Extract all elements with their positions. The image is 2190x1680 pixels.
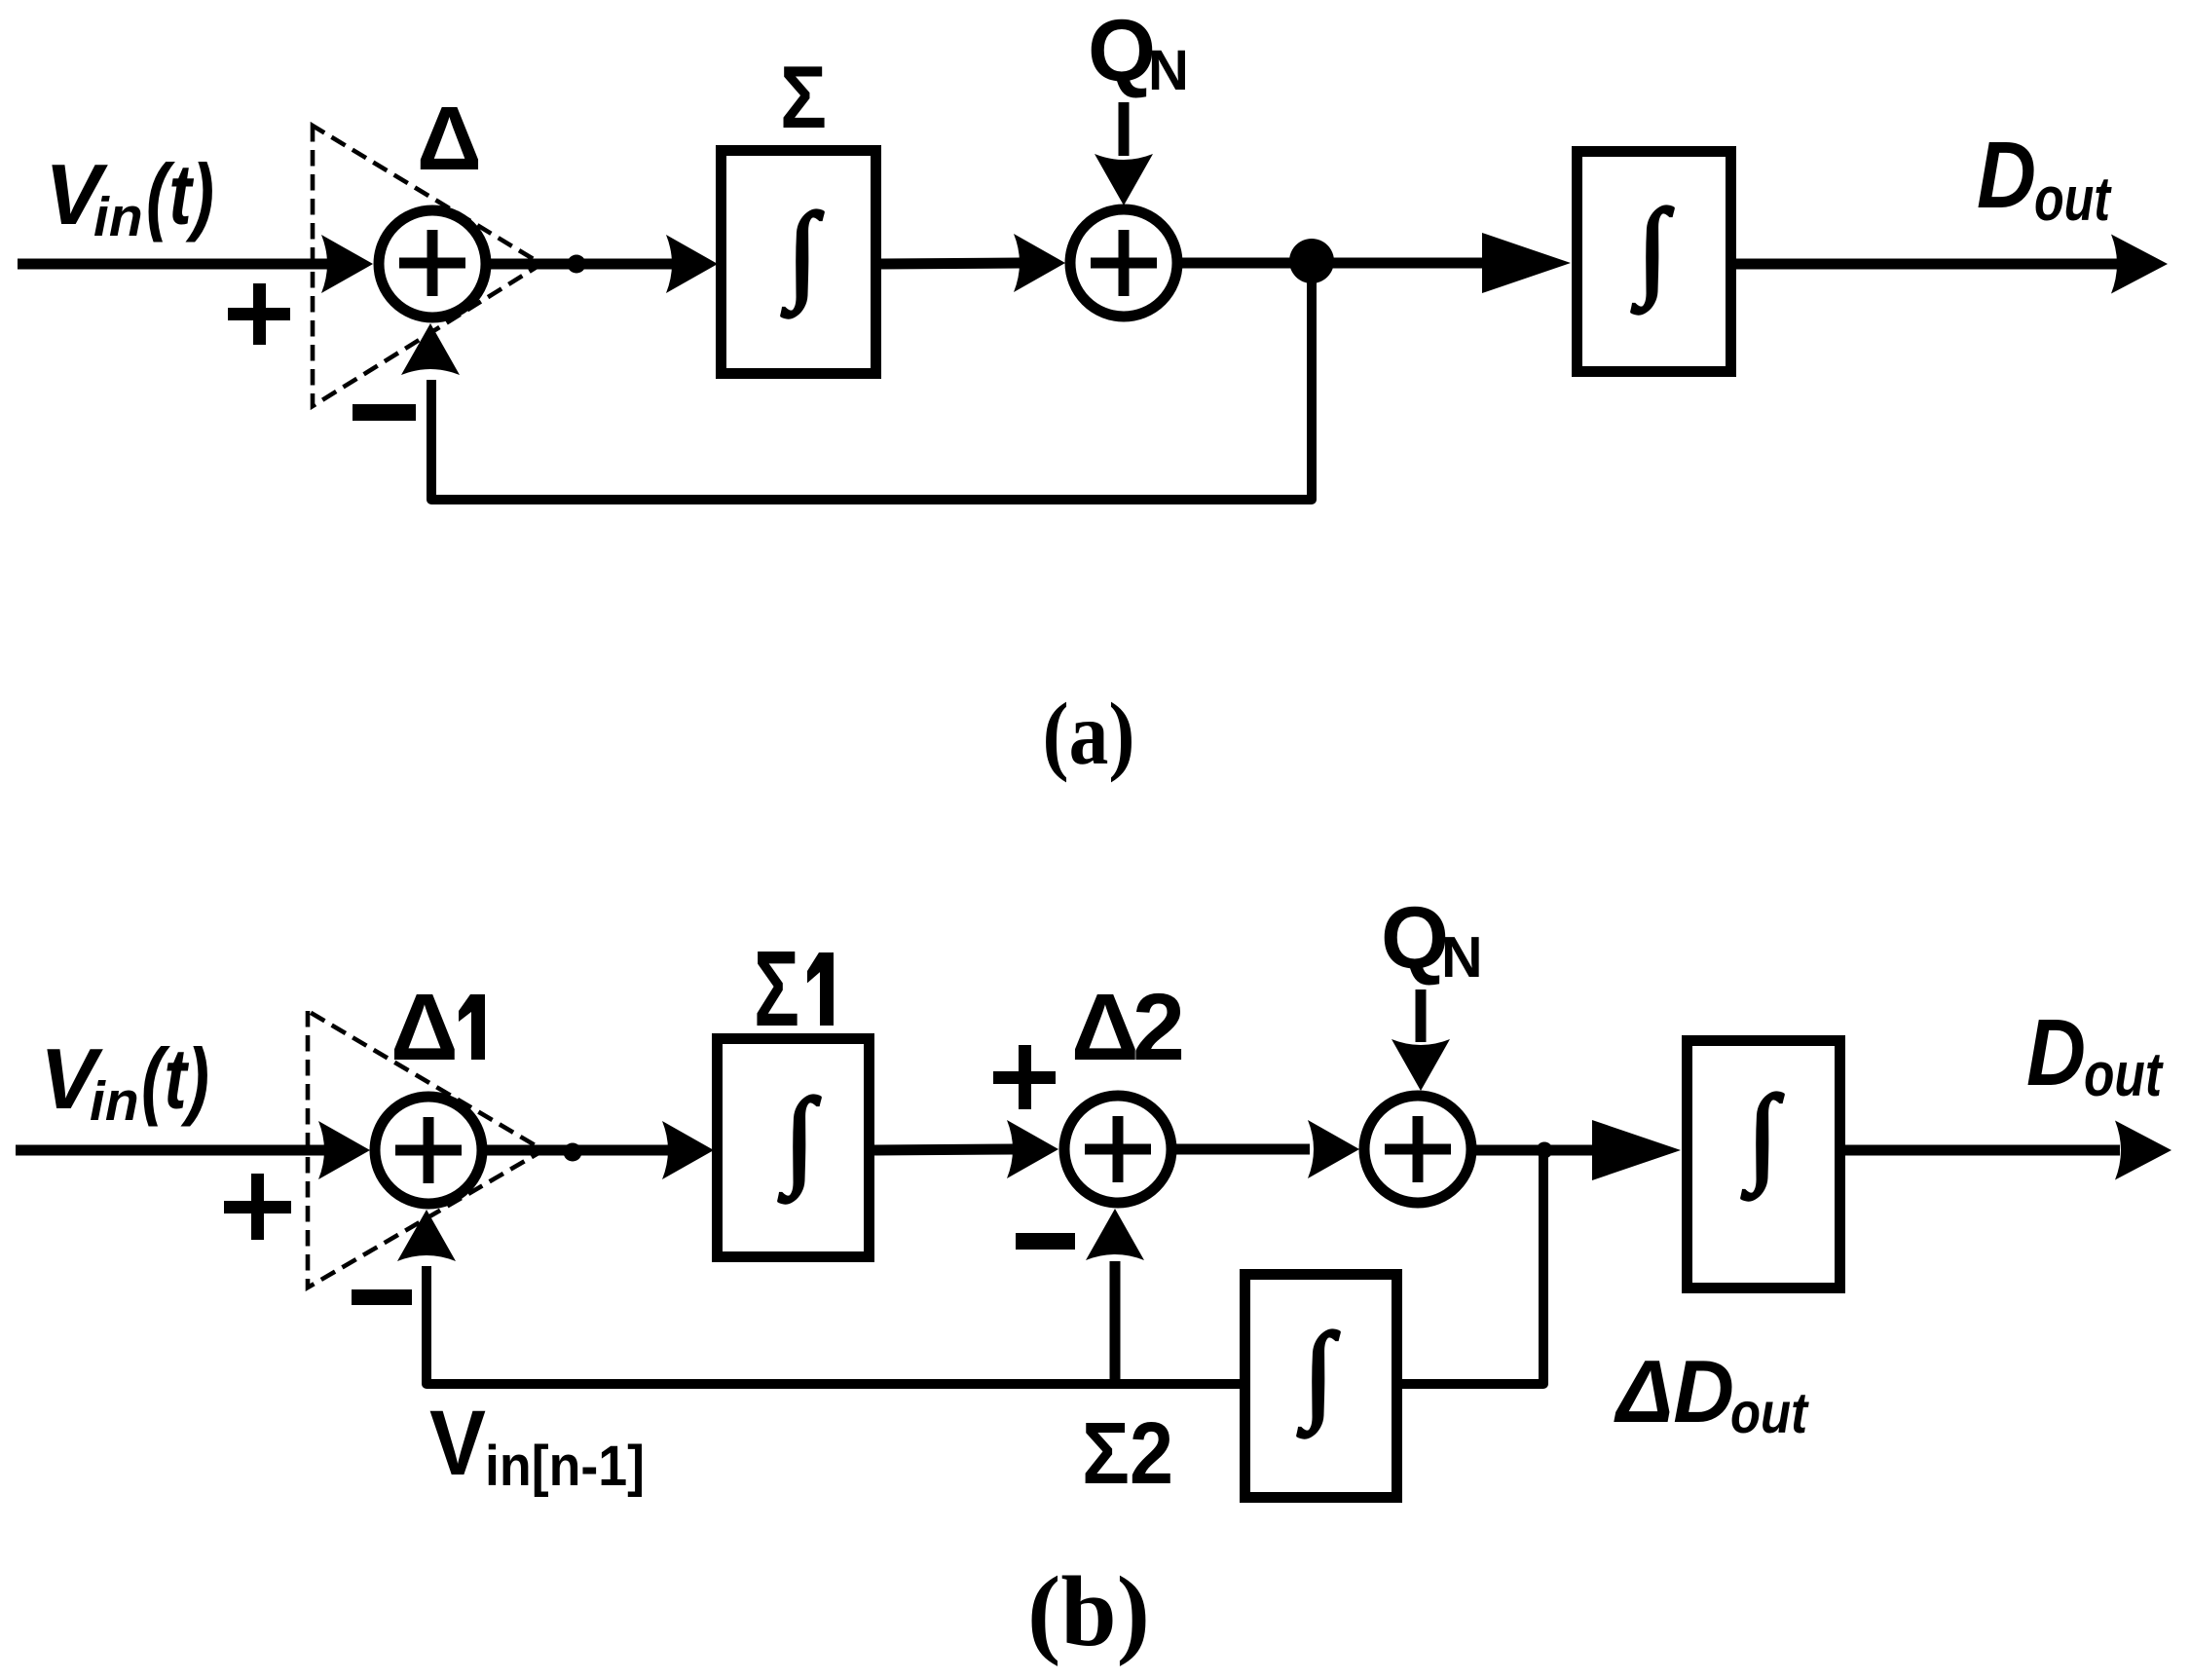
caption (b)	[1027, 1556, 1150, 1667]
wire: feedback loop (a)	[431, 262, 1312, 500]
arrowhead QN into summer (b)	[1392, 1039, 1450, 1091]
label Δ1 (b)	[390, 974, 485, 1080]
wire: feedback loop ΔDout (b)	[427, 1150, 1543, 1384]
svg-text:Δ: Δ	[390, 974, 459, 1080]
svg-text:∫: ∫	[1298, 1312, 1340, 1438]
svg-text:D: D	[1977, 122, 2036, 228]
wire: integrator Σ to summer QN (a)	[881, 263, 1021, 264]
label Vin(t) (b)	[40, 1030, 209, 1133]
label ΔDout (b)	[1614, 1343, 1809, 1445]
arrowhead feedback into summer Δ1 (b)	[397, 1210, 456, 1261]
wire: summer QN to quantizer (a)	[1177, 258, 1490, 269]
svg-text:Q: Q	[1088, 3, 1156, 100]
wire: QN drop (a)	[1119, 102, 1130, 156]
wire: summer Δ to integrator Σ (a)	[486, 259, 672, 270]
wire: summer QN to quantizer (b)	[1471, 1145, 1602, 1156]
wire: integrator Σ1 to summer Δ2 (b)	[874, 1149, 1013, 1150]
label Dout (b)	[2026, 999, 2164, 1109]
svg-text:out: out	[1730, 1381, 1809, 1445]
arrowhead feedback into summer Δ2 (b)	[1086, 1209, 1144, 1260]
arrowhead into summer QN (a)	[1014, 234, 1065, 292]
label − feedback polarity (a)	[353, 404, 416, 421]
svg-text:V: V	[429, 1392, 486, 1495]
label Σ1 (b)	[754, 929, 834, 1049]
svg-text:Δ: Δ	[417, 88, 482, 189]
wire: input Vin(t) (a)	[18, 259, 351, 270]
label − feedback polarity Δ1 (b)	[352, 1289, 412, 1305]
svg-text:ΔD: ΔD	[1614, 1343, 1734, 1441]
svg-text:out: out	[2084, 1039, 2164, 1109]
svg-text:Σ: Σ	[1082, 1405, 1130, 1503]
label Σ (a)	[780, 49, 827, 147]
svg-text:N: N	[1441, 925, 1483, 989]
svg-text:in: in	[93, 186, 143, 248]
label + input polarity (b)	[224, 1174, 291, 1240]
caption (a)	[1043, 685, 1135, 783]
wire: output Dout (b)	[1845, 1145, 2120, 1156]
arrowhead output Dout (b)	[2115, 1121, 2171, 1180]
summing junction Δ (a)	[379, 210, 486, 317]
integrator block Σ1 (b)	[718, 1039, 870, 1257]
svg-text:(t): (t)	[141, 1030, 209, 1127]
integrator block Σ (a)	[722, 151, 876, 374]
arrowhead output Dout (a)	[2111, 235, 2168, 294]
arrowhead into integrator Σ (a)	[666, 235, 718, 293]
arrowhead into quantizer (a)	[1482, 233, 1571, 293]
svg-text:D: D	[2026, 999, 2086, 1105]
quantizer block (b)	[1688, 1041, 1840, 1288]
label Δ2 (b)	[1071, 974, 1185, 1080]
svg-text:∫: ∫	[782, 192, 824, 318]
label + polarity above Δ2 (b)	[993, 1045, 1056, 1109]
wire: summer Δ2 to summer QN (b)	[1171, 1144, 1310, 1155]
node A (b) small junction dot	[564, 1143, 582, 1162]
node B (a) large junction dot	[1289, 239, 1334, 283]
label Vin[n-1] (b)	[429, 1392, 645, 1498]
dashed delta triangle (a)	[313, 126, 541, 406]
arrowhead into quantizer (b)	[1592, 1120, 1681, 1180]
wire: QN drop (b)	[1416, 989, 1427, 1042]
label + input polarity (a)	[228, 283, 290, 345]
svg-text:(t): (t)	[146, 146, 214, 243]
arrowhead into summer Δ2 (b)	[1007, 1120, 1058, 1178]
arrowhead into integrator Σ1 (b)	[662, 1121, 714, 1179]
wire: output Dout (a)	[1736, 259, 2118, 270]
svg-text:2: 2	[1132, 974, 1185, 1080]
svg-text:(b): (b)	[1027, 1556, 1150, 1667]
label Vin(t) (a)	[45, 146, 214, 248]
label QN (a)	[1088, 3, 1189, 102]
svg-text:in[n-1]: in[n-1]	[485, 1435, 645, 1498]
svg-text:∫: ∫	[779, 1077, 821, 1204]
label − polarity below Δ2 (b)	[1016, 1233, 1075, 1250]
summing junction Δ2 (b)	[1064, 1096, 1171, 1203]
svg-text:(a): (a)	[1043, 685, 1135, 783]
wire: summer Δ1 to integrator Σ1 (b)	[482, 1145, 668, 1156]
integrator block Σ2 (b)	[1245, 1275, 1397, 1498]
svg-text:Σ: Σ	[780, 49, 827, 147]
svg-text:2: 2	[1130, 1405, 1173, 1503]
wire: feedback branch up into Δ2 (b)	[1110, 1261, 1121, 1384]
svg-text:∫: ∫	[1632, 188, 1674, 315]
arrowhead into summer Δ1 (b)	[318, 1121, 370, 1179]
svg-text:N: N	[1148, 39, 1189, 102]
arrowhead into summer Δ (a)	[321, 235, 373, 293]
arrowhead feedback into summer Δ (a)	[401, 323, 460, 375]
node B (b) small junction dot	[1537, 1142, 1553, 1159]
label QN (b)	[1381, 890, 1483, 989]
svg-text:Σ: Σ	[754, 929, 799, 1049]
label Σ2 (b)	[1082, 1405, 1173, 1503]
summing junction Δ1 (b)	[375, 1097, 482, 1204]
arrowhead into summer QN (b)	[1308, 1120, 1359, 1178]
svg-text:Δ: Δ	[1071, 974, 1139, 1080]
summing junction for QN (a)	[1070, 209, 1177, 317]
wire: input Vin(t) (b)	[16, 1145, 346, 1156]
svg-text:Q: Q	[1381, 890, 1449, 988]
node A (a) small junction dot	[568, 255, 586, 274]
svg-text:in: in	[90, 1070, 139, 1133]
label Δ (a)	[417, 88, 482, 189]
dashed delta triangle Δ1 (b)	[308, 1011, 543, 1288]
svg-text:∫: ∫	[1742, 1074, 1784, 1201]
quantizer block (a)	[1578, 152, 1731, 372]
label Dout (a)	[1977, 122, 2112, 234]
svg-text:out: out	[2034, 164, 2112, 234]
arrowhead QN into summer (a)	[1095, 154, 1153, 205]
summing junction for QN (b)	[1364, 1096, 1471, 1203]
